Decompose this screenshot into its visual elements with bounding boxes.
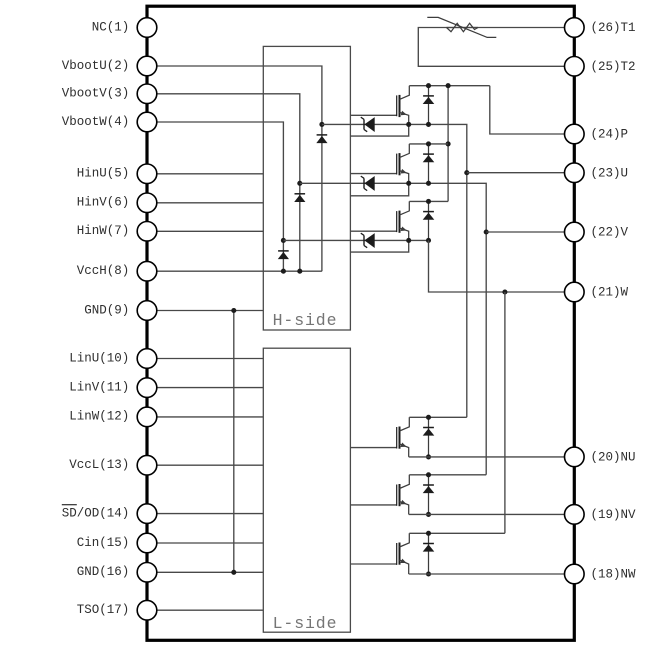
pin 20 (20)NU xyxy=(565,447,636,467)
wire NU emitter to pin20 xyxy=(409,456,575,458)
wire Q6 (NW low) gate drive xyxy=(350,563,396,565)
svg-text:VccL(13): VccL(13) xyxy=(69,458,129,472)
wire T1 pin26 with thermistor loop to T2 pin25 xyxy=(447,27,575,29)
diode D4 (freewheel) xyxy=(423,417,435,457)
diode D3 (freewheel) xyxy=(423,201,435,240)
pin 17 TSO(17) xyxy=(77,600,157,620)
pin 15 Cin(15) xyxy=(77,533,157,553)
thermistor RT1 zigzag xyxy=(447,23,479,31)
diode D2 (freewheel) xyxy=(423,144,435,183)
svg-text:Cin(15): Cin(15) xyxy=(77,536,130,550)
transistor Q6 (NW low) xyxy=(397,533,410,574)
pin 10 LinU(10) xyxy=(69,349,157,369)
node D3 anode junction xyxy=(426,238,431,243)
package outline (module body) xyxy=(147,6,574,640)
pin 13 VccL(13) xyxy=(69,455,157,475)
diode D6 (freewheel) xyxy=(423,533,435,574)
svg-text:SD/OD(14): SD/OD(14) xyxy=(62,506,130,520)
node W output to low-side junction xyxy=(502,289,507,294)
wire P feed to pin24 xyxy=(490,86,575,134)
pin 25 (25)T2 xyxy=(565,57,636,77)
node D1 cathode junction xyxy=(426,83,431,88)
svg-text:HinV(6): HinV(6) xyxy=(77,196,130,210)
wire VccH pin8 bus to bootstrap diodes xyxy=(147,270,322,272)
block U2 L-side gate driver xyxy=(263,348,350,633)
pin 24 (24)P xyxy=(565,124,629,144)
pin 3 VbootV(3) xyxy=(62,84,157,104)
node VccH-VbootV bootstrap junction xyxy=(297,269,302,274)
pin 7 HinW(7) xyxy=(77,222,157,242)
svg-text:LinV(11): LinV(11) xyxy=(69,380,129,394)
pin 21 (21)W xyxy=(565,282,629,302)
wire GND pin9 to driver block xyxy=(147,310,263,312)
svg-text:VccH(8): VccH(8) xyxy=(77,264,130,278)
wire Q5 (NV low) collector rail xyxy=(409,474,486,476)
wire HinU pin5 to driver block xyxy=(147,173,263,175)
wire Q1 (U high) collector rail xyxy=(409,85,490,87)
wire Q3 (W high) collector rail xyxy=(409,200,448,202)
diode D-bootW (bootstrap) xyxy=(278,251,289,259)
node D2 cathode junction xyxy=(426,141,431,146)
pin 8 VccH(8) xyxy=(77,261,157,281)
wire U output to pin23 xyxy=(467,172,575,174)
wire Q4 (NU low) collector rail xyxy=(409,416,467,418)
diode D-bootU (bootstrap) xyxy=(316,135,327,143)
wire NW emitter to pin18 xyxy=(409,573,575,575)
node Q2 collector / P link xyxy=(446,141,451,146)
diode DZ3 (zener, gate-emitter) xyxy=(361,233,375,248)
svg-text:(23)U: (23)U xyxy=(591,166,629,180)
node D6 anode junction xyxy=(426,571,431,576)
svg-text:HinU(5): HinU(5) xyxy=(77,167,130,181)
pin 11 LinV(11) xyxy=(69,378,157,398)
wire LinV pin11 to driver block xyxy=(147,387,263,389)
svg-text:VbootV(3): VbootV(3) xyxy=(62,87,130,101)
node V output junction xyxy=(484,229,489,234)
pin 5 HinU(5) xyxy=(77,164,157,184)
wire HinW pin7 to driver block xyxy=(147,230,263,232)
pin 4 VbootW(4) xyxy=(62,112,157,132)
wire Q1 (U high) emitter return to driver xyxy=(350,124,408,136)
pin 6 HinV(6) xyxy=(77,193,157,213)
wire VbootU pin2 to bootstrap rail xyxy=(147,66,322,271)
wire Q1 (U high) gate drive xyxy=(350,114,396,116)
pin 18 (18)NW xyxy=(565,564,637,584)
transistor Q1 (U high) xyxy=(397,86,410,125)
svg-text:(26)T1: (26)T1 xyxy=(591,21,636,35)
wire VbootW zener line to Q3 emitter xyxy=(283,239,428,241)
pin 26 (26)T1 xyxy=(565,18,636,38)
wire W output drop to Q6 collector xyxy=(504,292,506,533)
node D5 anode junction xyxy=(426,512,431,517)
svg-text:GND(16): GND(16) xyxy=(77,565,130,579)
node GND pin9 junction xyxy=(231,308,236,313)
svg-text:(19)NV: (19)NV xyxy=(591,508,637,522)
wire LinU pin10 to driver block xyxy=(147,358,263,360)
wire TSO pin17 to driver block xyxy=(147,609,263,611)
node D6 cathode junction xyxy=(426,531,431,536)
diode D1 (freewheel) xyxy=(423,86,435,125)
pin 12 LinW(12) xyxy=(69,407,157,427)
node GND pin16 junction xyxy=(231,570,236,575)
svg-text:(24)P: (24)P xyxy=(591,128,629,142)
node Q1 collector / P link xyxy=(446,83,451,88)
svg-text:TSO(17): TSO(17) xyxy=(77,603,130,617)
svg-text:LinW(12): LinW(12) xyxy=(69,410,129,424)
svg-text:(21)W: (21)W xyxy=(591,286,629,300)
wire Q2 (V high) emitter return to driver xyxy=(350,183,408,196)
node D4 cathode junction xyxy=(426,415,431,420)
node Q1 emitter xyxy=(406,122,411,127)
node VbootW zener tap xyxy=(281,238,286,243)
svg-text:GND(9): GND(9) xyxy=(84,303,129,317)
svg-text:L-side: L-side xyxy=(273,614,338,633)
svg-text:VbootW(4): VbootW(4) xyxy=(62,115,130,129)
wire SD/OD pin14 to driver block xyxy=(147,513,263,515)
wire VccL pin13 to driver block xyxy=(147,464,263,466)
diode D5 (freewheel) xyxy=(423,475,435,515)
pin 9 GND(9) xyxy=(84,301,157,321)
diode DZ1 (zener, gate-emitter) xyxy=(361,117,375,132)
diode D-bootV (bootstrap) xyxy=(294,194,305,202)
pin 19 (19)NV xyxy=(565,505,637,525)
wire Q6 (NW low) collector rail xyxy=(409,532,505,534)
node D4 anode junction xyxy=(426,454,431,459)
wire Q2 (V high) gate drive xyxy=(350,173,396,175)
transistor Q3 (W high) xyxy=(397,201,410,240)
svg-text:HinW(7): HinW(7) xyxy=(77,224,130,238)
diode DZ2 (zener, gate-emitter) xyxy=(361,176,375,191)
node D2 anode junction xyxy=(426,181,431,186)
node D1 anode junction xyxy=(426,122,431,127)
wire VbootV zener line to Q2 emitter and V output xyxy=(300,183,486,475)
wire LinW pin12 to driver block xyxy=(147,416,263,418)
svg-text:(18)NW: (18)NW xyxy=(591,568,637,582)
transistor Q2 (V high) xyxy=(397,144,410,183)
node Q2 emitter xyxy=(406,181,411,186)
node U output junction xyxy=(464,170,469,175)
wire Cin pin15 to driver block xyxy=(147,542,263,544)
wire GND pin16 to driver block xyxy=(147,571,263,573)
wire P rail link Q1-Q2-Q3 collectors xyxy=(447,86,449,202)
wire Q3 (W high) emitter return to driver xyxy=(350,240,408,252)
pin 2 VbootU(2) xyxy=(62,56,157,76)
pin 22 (22)V xyxy=(565,222,629,242)
pin 1 NC(1) xyxy=(92,18,157,38)
wire V output to pin22 xyxy=(486,231,574,233)
wire NV emitter to pin19 xyxy=(409,513,575,515)
svg-text:H-side: H-side xyxy=(273,311,338,330)
wire HinV pin6 to driver block xyxy=(147,202,263,204)
node VbootV zener tap xyxy=(297,181,302,186)
wire Q5 (NV low) gate drive xyxy=(350,504,396,506)
wire GND link pin9 to pin16 xyxy=(233,311,235,573)
node D5 cathode junction xyxy=(426,472,431,477)
node VbootU zener tap xyxy=(319,122,324,127)
node VccH-VbootW bootstrap junction xyxy=(281,269,286,274)
thermistor RT1 strike line xyxy=(427,17,496,37)
pin 16 GND(16) xyxy=(77,563,157,583)
transistor Q4 (NU low) xyxy=(397,417,410,457)
svg-text:(22)V: (22)V xyxy=(591,226,629,240)
svg-text:VbootU(2): VbootU(2) xyxy=(62,59,130,73)
wire W output to pin21 xyxy=(429,240,575,292)
wire VbootV pin3 to bootstrap rail xyxy=(147,94,300,271)
wire VbootU zener line to Q1 emitter and U output xyxy=(322,124,467,417)
pin 14 SD/OD(14) xyxy=(62,504,157,524)
svg-text:NC(1): NC(1) xyxy=(92,20,130,34)
node D3 cathode junction xyxy=(426,199,431,204)
pin 23 (23)U xyxy=(565,163,629,183)
svg-text:(25)T2: (25)T2 xyxy=(591,60,636,74)
transistor Q5 (NV low) xyxy=(397,475,410,515)
wire Q4 (NU low) gate drive xyxy=(350,447,396,449)
wire Q2 (V high) collector rail xyxy=(409,143,448,145)
wire VbootW pin4 to bootstrap rail xyxy=(147,122,283,271)
node Q3 emitter xyxy=(406,238,411,243)
svg-text:LinU(10): LinU(10) xyxy=(69,351,129,365)
wire Q3 (W high) gate drive xyxy=(350,230,396,232)
svg-text:(20)NU: (20)NU xyxy=(591,451,636,465)
block U1 H-side gate driver xyxy=(263,46,350,330)
